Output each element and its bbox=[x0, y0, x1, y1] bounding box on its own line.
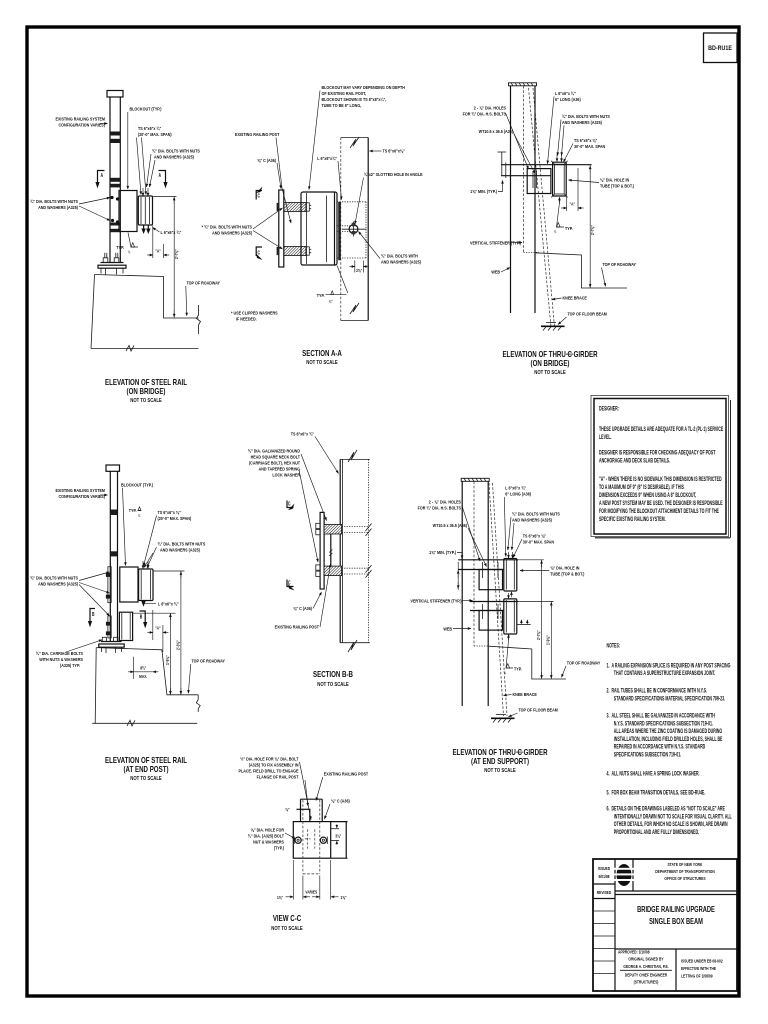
svg-text:⅝" DIA. HOLE FOR: ⅝" DIA. HOLE FOR bbox=[251, 827, 285, 833]
svg-text:LOCK WASHER: LOCK WASHER bbox=[272, 472, 300, 478]
svg-text:B: B bbox=[92, 611, 95, 617]
svg-text:TUBE (TOP & BOT.): TUBE (TOP & BOT.) bbox=[600, 183, 634, 189]
upper blockout bbox=[120, 567, 138, 602]
svg-text:1⅝" MIN. (TYP.): 1⅝" MIN. (TYP.) bbox=[429, 549, 456, 555]
svg-text:(AT END POST): (AT END POST) bbox=[124, 766, 169, 774]
upper rail tube bbox=[504, 559, 517, 592]
floor beam bbox=[546, 322, 556, 324]
girder top flange bbox=[509, 83, 537, 86]
svg-text:TO A MAXIMUM OF 9" (6" IS DESI: TO A MAXIMUM OF 9" (6" IS DESIRABLE). IF… bbox=[599, 484, 684, 491]
C marker upper bbox=[256, 187, 263, 200]
logo cell bbox=[632, 859, 634, 891]
post band 4 bbox=[110, 184, 120, 188]
svg-text:GEORGE A. CHRISTIAN, P.E.: GEORGE A. CHRISTIAN, P.E. bbox=[623, 963, 668, 969]
svg-text:WEB: WEB bbox=[491, 269, 500, 275]
svg-text:NUT & WASHERS: NUT & WASHERS bbox=[253, 839, 284, 845]
break mark bottom bbox=[126, 346, 134, 352]
existing post flange bbox=[320, 512, 324, 589]
svg-text:⅛": ⅛" bbox=[329, 299, 333, 304]
svg-text:WEB: WEB bbox=[443, 626, 452, 632]
svg-text:FOR ¾" DIA. H.S. BOLTS: FOR ¾" DIA. H.S. BOLTS bbox=[463, 111, 506, 117]
svg-text:TOP OF ROADWAY: TOP OF ROADWAY bbox=[567, 660, 601, 666]
svg-text:INTENTIONALLY DRAWN NOT TO SCA: INTENTIONALLY DRAWN NOT TO SCALE FOR VIS… bbox=[614, 813, 732, 820]
svg-text:THESE UPGRADE DETAILS ARE ADEQ: THESE UPGRADE DETAILS ARE ADEQUATE FOR A… bbox=[599, 426, 724, 433]
post band 1 bbox=[110, 510, 117, 516]
svg-text:L 6"x6"x ¾": L 6"x6"x ¾" bbox=[555, 90, 576, 96]
svg-text:WITH NUTS & WASHERS: WITH NUTS & WASHERS bbox=[39, 656, 83, 662]
section arrow below tube bbox=[143, 225, 145, 229]
svg-text:1⅝": 1⅝" bbox=[340, 894, 346, 900]
bottom dims bbox=[292, 860, 294, 900]
svg-text:¾" DIA. BOLTS WITH NUTS: ¾" DIA. BOLTS WITH NUTS bbox=[562, 113, 610, 119]
svg-text:¾" DIA. GALVANIZED ROUND: ¾" DIA. GALVANIZED ROUND bbox=[248, 448, 300, 454]
svg-text:TYP.: TYP. bbox=[116, 244, 124, 250]
weld typ bbox=[557, 199, 565, 228]
section marker B right bbox=[140, 611, 148, 628]
svg-text:TOP OF FLOOR BEAM: TOP OF FLOOR BEAM bbox=[568, 311, 608, 317]
svg-text:⅜" C (A36): ⅜" C (A36) bbox=[293, 605, 312, 611]
svg-text:2'-7⅝": 2'-7⅝" bbox=[535, 630, 541, 640]
box girder tube walls bbox=[340, 138, 342, 321]
svg-text:CONFIGURATION VARIES): CONFIGURATION VARIES) bbox=[59, 122, 106, 128]
svg-text:REVISED: REVISED bbox=[597, 889, 612, 895]
svg-text:C: C bbox=[288, 580, 291, 586]
dim 8-3/4 max bbox=[133, 657, 135, 679]
post bolts bbox=[108, 567, 111, 603]
bolt row lower hatched bbox=[284, 247, 306, 256]
rail tube bbox=[553, 162, 567, 196]
svg-text:(TYP.): (TYP.) bbox=[274, 845, 285, 851]
svg-text:1⅝": 1⅝" bbox=[277, 894, 283, 900]
svg-text:TYP.: TYP. bbox=[565, 225, 573, 231]
svg-text:LEVEL.: LEVEL. bbox=[599, 434, 612, 441]
svg-text:ELEVATION OF STEEL RAIL: ELEVATION OF STEEL RAIL bbox=[105, 379, 188, 387]
svg-text:TS 6"x6"x ¾": TS 6"x6"x ¾" bbox=[138, 125, 161, 131]
svg-text:TOP OF FLOOR BEAM: TOP OF FLOOR BEAM bbox=[519, 707, 559, 713]
svg-text:WT10.5 x 36.5 (A36): WT10.5 x 36.5 (A36) bbox=[433, 522, 468, 528]
post band 1 bbox=[110, 132, 120, 136]
svg-text:THAT CONTAINS A SUPERSTRUCTURE: THAT CONTAINS A SUPERSTRUCTURE EXPANSION… bbox=[614, 670, 716, 677]
top/bottom line extensions right bbox=[331, 821, 348, 823]
svg-text:BLOCKOUT (TYP.): BLOCKOUT (TYP.) bbox=[121, 482, 153, 488]
upper rail: horizontal lines bbox=[458, 559, 518, 561]
svg-text:TYP.: TYP. bbox=[317, 292, 325, 298]
svg-text:PROPORTIONAL AND ARE FULLY DIM: PROPORTIONAL AND ARE FULLY DIMENSIONED. bbox=[614, 829, 700, 836]
svg-text:EXISTING RAILING POST: EXISTING RAILING POST bbox=[275, 624, 320, 630]
svg-text:L 6"x6"x ¾": L 6"x6"x ¾" bbox=[161, 229, 182, 235]
hidden post dashed bbox=[302, 800, 304, 874]
svg-text:INSTALLATION, INCLUDING FIELD: INSTALLATION, INCLUDING FIELD DRILLED HO… bbox=[614, 736, 723, 743]
section arrow below tube bbox=[141, 601, 146, 607]
svg-text:DEPUTY CHIEF ENGINEER: DEPUTY CHIEF ENGINEER bbox=[625, 972, 667, 978]
svg-text:EXISTING RAILING POST: EXISTING RAILING POST bbox=[235, 131, 280, 137]
svg-text:EXISTING RAILING SYSTEM: EXISTING RAILING SYSTEM bbox=[56, 116, 106, 122]
svg-text:ISSUED UNDER EB 08-002: ISSUED UNDER EB 08-002 bbox=[681, 958, 723, 964]
ext line upper rail top bbox=[154, 570, 185, 572]
svg-text:TS 6"x6"x ⅜": TS 6"x6"x ⅜" bbox=[158, 509, 181, 515]
curb left slope bbox=[91, 275, 95, 349]
svg-text:NOT TO SCALE: NOT TO SCALE bbox=[306, 360, 337, 365]
svg-text:OF EXISTING RAIL POST,: OF EXISTING RAIL POST, bbox=[322, 90, 367, 96]
section marker A right bbox=[159, 171, 168, 189]
existing railing post bbox=[109, 471, 111, 641]
revision column bbox=[614, 859, 616, 991]
svg-text:NOT TO SCALE: NOT TO SCALE bbox=[271, 926, 302, 931]
svg-text:AND WASHERS (A325): AND WASHERS (A325) bbox=[512, 517, 552, 523]
right end drop bbox=[196, 695, 200, 712]
vertical dim 1-9 bbox=[550, 602, 552, 680]
svg-text:(STRUCTURES): (STRUCTURES) bbox=[634, 979, 659, 985]
svg-text:TUBE TO BE 8" LONG,: TUBE TO BE 8" LONG, bbox=[322, 102, 362, 108]
svg-text:SECTION B-B: SECTION B-B bbox=[313, 671, 353, 679]
svg-text:OFFICE OF STRUCTURES: OFFICE OF STRUCTURES bbox=[664, 875, 705, 881]
svg-text:WT10.5 x 36.5 (A36): WT10.5 x 36.5 (A36) bbox=[479, 128, 514, 134]
girder web bbox=[461, 481, 463, 706]
svg-text:NOT TO SCALE: NOT TO SCALE bbox=[130, 398, 161, 403]
svg-text:AND WASHERS (A325): AND WASHERS (A325) bbox=[160, 547, 200, 553]
svg-text:1'-5⅝": 1'-5⅝" bbox=[164, 655, 170, 665]
wt stem bbox=[527, 169, 551, 194]
svg-text:C: C bbox=[258, 193, 261, 199]
main plate bbox=[293, 822, 330, 859]
svg-text:SINGLE BOX BEAM: SINGLE BOX BEAM bbox=[649, 918, 703, 926]
upper carriage bolt row bbox=[324, 525, 342, 535]
hidden angle dotted bbox=[338, 202, 341, 260]
svg-text:TOP OF ROADWAY: TOP OF ROADWAY bbox=[603, 261, 637, 267]
svg-text:APPROVED: 1/10/08: APPROVED: 1/10/08 bbox=[618, 949, 650, 955]
svg-text:ELEVATION OF THRU C GIRDER: ELEVATION OF THRU C GIRDER bbox=[502, 351, 597, 359]
svg-text:6" LONG (A36): 6" LONG (A36) bbox=[505, 491, 531, 497]
post band 3 bbox=[110, 178, 120, 182]
svg-text:30'-0" MAX. SPAN: 30'-0" MAX. SPAN bbox=[574, 143, 605, 149]
svg-text:C: C bbox=[258, 250, 261, 256]
svg-text:ALL AREAS WHERE THE ZINC COATI: ALL AREAS WHERE THE ZINC COATING IS DAMA… bbox=[614, 728, 722, 735]
svg-text:IF NEEDED.: IF NEEDED. bbox=[236, 316, 257, 322]
svg-text:¾" DIA. BOLTS WITH NUTS: ¾" DIA. BOLTS WITH NUTS bbox=[30, 575, 78, 581]
break marks bbox=[348, 450, 357, 462]
svg-text:⅜" DIA. HOLE IN: ⅜" DIA. HOLE IN bbox=[550, 565, 579, 571]
svg-text:2⅝": 2⅝" bbox=[356, 268, 362, 274]
svg-text:3. ALL STEEL SHALL BE GALVANI: 3. ALL STEEL SHALL BE GALVANIZED IN ACCO… bbox=[607, 713, 716, 720]
upper WT stem bbox=[479, 570, 502, 590]
svg-text:* ¾" DIA. BOLTS WITH NUTS: * ¾" DIA. BOLTS WITH NUTS bbox=[202, 224, 252, 230]
deck slope and roadway bbox=[489, 646, 566, 679]
knee brace dashed bbox=[529, 88, 552, 327]
svg-text:KNEE BRACE: KNEE BRACE bbox=[513, 691, 537, 697]
svg-text:SPECIFIC EXISTING RAILING SYST: SPECIFIC EXISTING RAILING SYSTEM. bbox=[599, 516, 666, 523]
post bolts bbox=[110, 196, 113, 199]
svg-text:5. FOR BOX BEAM TRANSITION DE: 5. FOR BOX BEAM TRANSITION DETAILS, SEE … bbox=[607, 790, 706, 797]
svg-text:VIEW C-C: VIEW C-C bbox=[273, 915, 301, 923]
svg-text:A: A bbox=[159, 172, 162, 178]
svg-text:SPECIFICATIONS SUBSECTION 719-: SPECIFICATIONS SUBSECTION 719-01. bbox=[614, 752, 682, 759]
svg-text:STANDARD SPECIFICATIONS MATERI: STANDARD SPECIFICATIONS MATERIAL SPECIFI… bbox=[614, 695, 726, 702]
vertical dim 2-7 bbox=[541, 560, 543, 679]
svg-text:1'-9⅝": 1'-9⅝" bbox=[545, 635, 551, 645]
upper tab bbox=[300, 799, 302, 821]
svg-text:TOP OF ROADWAY: TOP OF ROADWAY bbox=[192, 658, 226, 664]
svg-text:BD-RU1E: BD-RU1E bbox=[708, 44, 732, 52]
bolt arrow into tube top bbox=[142, 188, 144, 196]
blockout tube section bbox=[301, 192, 337, 265]
svg-text:TS 6"x6"x ¾": TS 6"x6"x ¾" bbox=[291, 431, 314, 437]
svg-text:DESIGNER:: DESIGNER: bbox=[599, 406, 619, 413]
svg-text:AND WASHERS (A325): AND WASHERS (A325) bbox=[38, 581, 78, 587]
svg-text:NOT TO SCALE: NOT TO SCALE bbox=[130, 776, 161, 781]
svg-text:"A": "A" bbox=[570, 201, 575, 207]
approval area bbox=[615, 948, 737, 950]
svg-text:STATE OF NEW YORK: STATE OF NEW YORK bbox=[668, 861, 703, 867]
svg-text:4. ALL NUTS SHALL HAVE A SPRI: 4. ALL NUTS SHALL HAVE A SPRING LOCK WAS… bbox=[607, 771, 700, 778]
svg-text:ISSUED: ISSUED bbox=[598, 865, 610, 871]
svg-text:VERTICAL STIFFENER (TYP.): VERTICAL STIFFENER (TYP.) bbox=[411, 598, 462, 604]
curb top bbox=[95, 275, 199, 319]
svg-text:5/01/08: 5/01/08 bbox=[598, 873, 610, 879]
bolt left bbox=[295, 837, 301, 843]
curb top line bbox=[96, 648, 198, 695]
ext line tube right bbox=[517, 559, 544, 561]
base plate bbox=[101, 262, 124, 264]
svg-text:N.Y.S. STANDARD SPECIFICATIONS: N.Y.S. STANDARD SPECIFICATIONS SUBSECTIO… bbox=[614, 720, 714, 727]
svg-text:LETTING OF 1/08/09: LETTING OF 1/08/09 bbox=[681, 973, 713, 979]
svg-text:TYP.: TYP. bbox=[514, 666, 522, 672]
svg-text:VARIES: VARIES bbox=[305, 889, 317, 895]
post cap bbox=[106, 465, 120, 471]
svg-text:A NEW POST SYSTEM MAY BE USED.: A NEW POST SYSTEM MAY BE USED. THE DESIG… bbox=[599, 500, 723, 507]
svg-text:* USE CLIPPED WASHERS: * USE CLIPPED WASHERS bbox=[231, 310, 278, 316]
svg-text:2 - ⅞" DIA. HOLES: 2 - ⅞" DIA. HOLES bbox=[429, 499, 461, 505]
post band 2 bbox=[110, 551, 117, 556]
svg-text:ELEVATION OF THRU C GIRDER: ELEVATION OF THRU C GIRDER bbox=[452, 749, 547, 757]
svg-text:1⅝" MIN. (TYP.): 1⅝" MIN. (TYP.) bbox=[470, 188, 497, 194]
svg-text:TS 6"x6"x ⅜": TS 6"x6"x ⅜" bbox=[523, 533, 546, 539]
dim A small bbox=[152, 610, 154, 640]
svg-text:ELEVATION OF STEEL RAIL: ELEVATION OF STEEL RAIL bbox=[105, 757, 188, 765]
svg-text:AND WASHERS (A325): AND WASHERS (A325) bbox=[154, 154, 194, 160]
vertical dim 2-3 bbox=[180, 571, 182, 695]
svg-text:¾" DIA. CARRIAGE BOLTS: ¾" DIA. CARRIAGE BOLTS bbox=[36, 650, 83, 656]
svg-text:BLOCKOUT SHOWN IS TS 8"x8"x¼",: BLOCKOUT SHOWN IS TS 8"x8"x¼", bbox=[322, 96, 387, 102]
svg-text:⅝" C (A36): ⅝" C (A36) bbox=[257, 157, 276, 163]
svg-text:FLANGE OF RAIL POST: FLANGE OF RAIL POST bbox=[257, 774, 299, 780]
svg-text:BLOCKOUT MAY VARY DEPENDING ON: BLOCKOUT MAY VARY DEPENDING ON DEPTH bbox=[322, 84, 405, 90]
girder top flange bbox=[461, 478, 489, 481]
ext line lower rail top bbox=[133, 612, 176, 614]
svg-text:CONFIGURATION VARIES): CONFIGURATION VARIES) bbox=[59, 493, 106, 499]
svg-text:ORIGINAL SIGNED BY: ORIGINAL SIGNED BY bbox=[628, 956, 663, 962]
svg-text:2'-3⅝": 2'-3⅝" bbox=[175, 640, 181, 650]
svg-text:TOP OF ROADWAY: TOP OF ROADWAY bbox=[187, 280, 221, 286]
svg-text:SECTION A-A: SECTION A-A bbox=[302, 350, 342, 358]
svg-text:FOR MODIFYING THE BLOCKOUT ATT: FOR MODIFYING THE BLOCKOUT ATTACHMENT DE… bbox=[599, 508, 719, 515]
svg-text:EXISTING RAILING POST: EXISTING RAILING POST bbox=[324, 771, 369, 777]
drawing number box BD-RU1E bbox=[704, 33, 738, 63]
svg-text:⅜" DIA. HOLE IN: ⅜" DIA. HOLE IN bbox=[600, 177, 629, 183]
svg-text:30'-0" MAX. SPAN: 30'-0" MAX. SPAN bbox=[523, 539, 554, 545]
svg-text:6" LONG (A36): 6" LONG (A36) bbox=[555, 96, 581, 102]
lower carriage bolt row bbox=[324, 566, 342, 576]
dim A small bbox=[152, 226, 154, 259]
svg-text:AND WASHERS (A325): AND WASHERS (A325) bbox=[381, 259, 421, 265]
svg-text:FOR ¾" DIA. H.S. BOLTS: FOR ¾" DIA. H.S. BOLTS bbox=[418, 505, 461, 511]
svg-text:(20'-0" MAX. SPAN): (20'-0" MAX. SPAN) bbox=[158, 515, 192, 521]
section marker A left bbox=[95, 171, 104, 189]
svg-text:REPAIRED IN ACCORDANCE WITH N.: REPAIRED IN ACCORDANCE WITH N.Y.S. STAND… bbox=[614, 744, 706, 751]
svg-text:NOTES:: NOTES: bbox=[607, 643, 621, 650]
svg-text:(AT END SUPPORT): (AT END SUPPORT) bbox=[471, 758, 529, 766]
base plate bbox=[101, 641, 122, 643]
vertical stiffener dashed bbox=[473, 482, 475, 647]
svg-text:"A" - WHEN THERE IS NO SIDEWAL: "A" - WHEN THERE IS NO SIDEWALK THIS DIM… bbox=[599, 476, 722, 483]
girder web bbox=[510, 86, 512, 313]
C marker upper bbox=[287, 501, 295, 511]
vertical dimension rail to roadway bbox=[153, 196, 177, 198]
rail tube TS6x6 bbox=[138, 196, 152, 225]
curb left edge bbox=[95, 648, 96, 724]
C marker lower bbox=[256, 247, 263, 260]
svg-text:¾" DIA. BOLTS WITH NUTS: ¾" DIA. BOLTS WITH NUTS bbox=[152, 148, 200, 154]
weld typ bbox=[506, 635, 513, 668]
lower rail tube bbox=[504, 599, 517, 634]
break mark bottom bbox=[127, 720, 135, 726]
deck dotted bbox=[474, 645, 489, 647]
svg-text:EXISTING RAILING SYSTEM: EXISTING RAILING SYSTEM bbox=[56, 487, 106, 493]
dim A bbox=[566, 196, 568, 211]
lower rail box bbox=[119, 612, 132, 640]
svg-text:HEAD SQUARE NECK BOLT: HEAD SQUARE NECK BOLT bbox=[251, 454, 301, 460]
box beam tube bbox=[340, 458, 370, 460]
svg-text:NOT TO SCALE: NOT TO SCALE bbox=[534, 370, 565, 375]
svg-text:(ON BRIDGE): (ON BRIDGE) bbox=[531, 360, 570, 368]
svg-text:EFFECTIVE WITH THE: EFFECTIVE WITH THE bbox=[681, 965, 716, 971]
existing railing post bbox=[109, 97, 111, 263]
section marker B left bbox=[88, 609, 95, 628]
svg-text:NOT TO SCALE: NOT TO SCALE bbox=[317, 682, 348, 687]
deck slope line bbox=[535, 253, 627, 288]
svg-text:"A": "A" bbox=[156, 248, 161, 254]
svg-text:(A325) TO FIX ASSEMBLY IN: (A325) TO FIX ASSEMBLY IN bbox=[249, 762, 299, 768]
blockout bbox=[119, 191, 137, 232]
svg-text:1. A RAILING EXPANSION SPLICE: 1. A RAILING EXPANSION SPLICE IS REQUIRE… bbox=[607, 662, 731, 669]
svg-text:¾" DIA. BOLTS WITH: ¾" DIA. BOLTS WITH bbox=[381, 253, 418, 259]
lower rail: horizontal lines bbox=[470, 601, 518, 603]
svg-text:AND TAPERED SPRING: AND TAPERED SPRING bbox=[259, 466, 301, 472]
svg-text:"A": "A" bbox=[155, 625, 160, 631]
svg-text:3⅛": 3⅛" bbox=[335, 833, 341, 839]
lower WT stem bbox=[479, 611, 502, 631]
wt connection horizontal lines bbox=[501, 164, 592, 166]
svg-text:AND WASHERS (A325): AND WASHERS (A325) bbox=[38, 204, 78, 210]
svg-text:BRIDGE RAILING UPGRADE: BRIDGE RAILING UPGRADE bbox=[637, 906, 715, 914]
floor beam bbox=[496, 714, 506, 716]
vertical stiffener dashed bbox=[523, 86, 525, 253]
vertical dim 1-5 bbox=[169, 613, 171, 695]
svg-text:(20'-0" MAX. SPAN): (20'-0" MAX. SPAN) bbox=[138, 131, 172, 137]
bolt right bbox=[320, 837, 326, 843]
small dim right bbox=[345, 822, 347, 859]
svg-text:ANCHORAGE AND DECK SLAB DETAIL: ANCHORAGE AND DECK SLAB DETAILS. bbox=[599, 458, 670, 465]
svg-text:DIMENSION EXCEEDS 9" WHEN USIN: DIMENSION EXCEEDS 9" WHEN USING A 8" BLO… bbox=[599, 492, 697, 499]
svg-text:OTHER DETAILS, FOR WHICH NO SC: OTHER DETAILS, FOR WHICH NO SCALE IS SHO… bbox=[614, 821, 728, 828]
svg-text:L 6"x6"x¾": L 6"x6"x¾" bbox=[317, 155, 337, 161]
svg-text:2. RAIL TUBES SHALL BE IN CON: 2. RAIL TUBES SHALL BE IN CONFORMANCE WI… bbox=[607, 688, 708, 695]
svg-text:(CARRIAGE BOLT), HEX NUT: (CARRIAGE BOLT), HEX NUT bbox=[249, 460, 300, 466]
ground bottom line bbox=[91, 348, 199, 350]
svg-text:¾" DIA. (A325) BOLT: ¾" DIA. (A325) BOLT bbox=[248, 833, 285, 839]
svg-text:¾"x2" SLOTTED HOLE IN ANGLE: ¾"x2" SLOTTED HOLE IN ANGLE bbox=[364, 171, 423, 177]
existing post flange bbox=[279, 190, 284, 267]
svg-text:(ON BRIDGE): (ON BRIDGE) bbox=[127, 388, 166, 396]
svg-text:MAX.: MAX. bbox=[139, 673, 147, 679]
svg-text:2 - ⅞" DIA. HOLES: 2 - ⅞" DIA. HOLES bbox=[474, 105, 506, 111]
svg-text:DEPARTMENT OF TRANSPORTATION: DEPARTMENT OF TRANSPORTATION bbox=[655, 868, 715, 874]
svg-text:2'-7⅝": 2'-7⅝" bbox=[173, 249, 179, 259]
svg-text:DESIGNER IS RESPONSIBLE FOR CH: DESIGNER IS RESPONSIBLE FOR CHECKING ADE… bbox=[599, 450, 716, 457]
svg-text:TS 6"x6"x⅜": TS 6"x6"x⅜" bbox=[383, 148, 405, 154]
svg-text:TUBE (TOP & BOT.): TUBE (TOP & BOT.) bbox=[550, 571, 584, 577]
svg-text:PLACE. FIELD DRILL TO ENGAGE: PLACE. FIELD DRILL TO ENGAGE bbox=[239, 768, 299, 774]
svg-text:BLOCKOUT (TYP.): BLOCKOUT (TYP.) bbox=[130, 106, 162, 112]
left small dim bbox=[457, 562, 459, 590]
svg-text:AND WASHERS (A325): AND WASHERS (A325) bbox=[212, 230, 252, 236]
svg-text:NOT TO SCALE: NOT TO SCALE bbox=[484, 768, 515, 773]
svg-text:⅜": ⅜" bbox=[285, 806, 289, 812]
dim 2-5/8 bbox=[354, 261, 356, 273]
knee brace dashed bbox=[489, 483, 504, 716]
bolt row upper hatched bbox=[284, 203, 306, 212]
svg-text:L 6"x6"x ¾": L 6"x6"x ¾" bbox=[505, 485, 526, 491]
svg-text:C: C bbox=[288, 501, 291, 507]
post band 2 bbox=[110, 139, 120, 143]
svg-text:⅜" C (A36): ⅜" C (A36) bbox=[331, 798, 350, 804]
svg-text:6. DETAILS ON THE DRAWINGS LA: 6. DETAILS ON THE DRAWINGS LABELED AS "N… bbox=[607, 806, 726, 813]
svg-text:KNEE BRACE: KNEE BRACE bbox=[563, 295, 587, 301]
vertical dim 2-7 bbox=[589, 165, 591, 288]
svg-text:¾" DIA. BOLTS WITH NUTS: ¾" DIA. BOLTS WITH NUTS bbox=[30, 198, 78, 204]
svg-text:¾" DIA. BOLTS WITH NUTS: ¾" DIA. BOLTS WITH NUTS bbox=[158, 541, 206, 547]
label L6x6 bbox=[144, 602, 156, 604]
svg-text:2'-7⅝": 2'-7⅝" bbox=[589, 225, 595, 235]
ground bottom line bbox=[92, 722, 197, 724]
svg-text:8¾": 8¾" bbox=[140, 665, 146, 671]
break mark right bbox=[197, 305, 201, 334]
C marker lower bbox=[287, 580, 295, 591]
svg-text:L 6"x6"x ¾": L 6"x6"x ¾" bbox=[158, 601, 179, 607]
svg-text:A: A bbox=[101, 172, 104, 178]
break marks tube bbox=[350, 137, 359, 148]
upper rail tube bbox=[139, 569, 153, 601]
svg-text:TYP.: TYP. bbox=[129, 507, 137, 513]
svg-text:AND WASHERS (A325): AND WASHERS (A325) bbox=[562, 119, 602, 125]
post web line bbox=[330, 534, 332, 566]
bolt in slotted hole bbox=[349, 225, 358, 234]
svg-text:B: B bbox=[140, 614, 143, 620]
svg-text:½" DIA. HOLE FOR ⅜" DIA. BOLT: ½" DIA. HOLE FOR ⅜" DIA. BOLT bbox=[240, 756, 298, 762]
deck dotted bbox=[524, 251, 540, 253]
svg-text:¾" DIA. BOLTS WITH NUTS: ¾" DIA. BOLTS WITH NUTS bbox=[512, 511, 560, 517]
existing post cap bbox=[107, 91, 123, 98]
svg-text:(A325) TYP.: (A325) TYP. bbox=[60, 662, 80, 668]
NYSDOT logo bbox=[613, 864, 635, 886]
svg-text:TS 6"x6"x ⅜": TS 6"x6"x ⅜" bbox=[574, 137, 597, 143]
